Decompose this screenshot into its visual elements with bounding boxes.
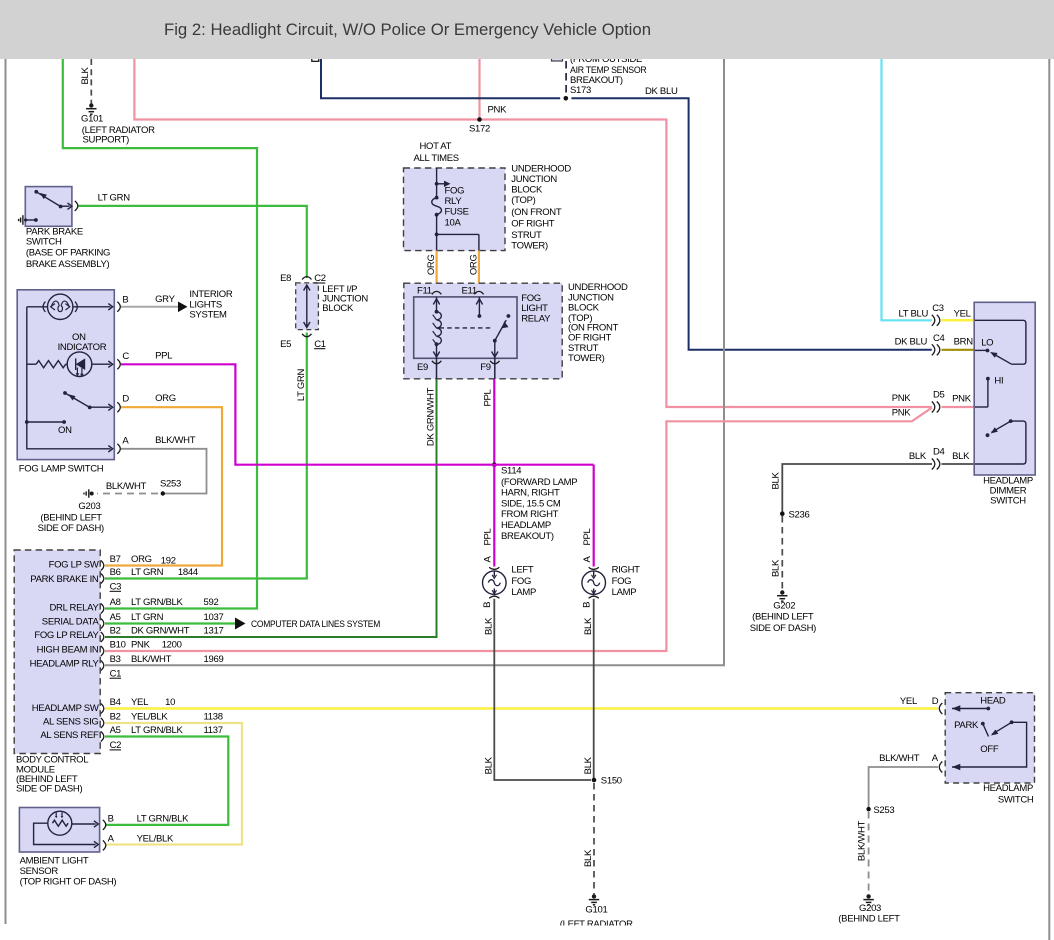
svg-text:B: B bbox=[122, 295, 128, 306]
svg-text:A: A bbox=[482, 556, 493, 563]
svg-text:STRUT: STRUT bbox=[511, 230, 542, 241]
arrow computer data lines system bbox=[235, 618, 246, 630]
svg-text:(BEHIND LEFT: (BEHIND LEFT bbox=[838, 913, 900, 924]
svg-text:10A: 10A bbox=[445, 217, 462, 228]
svg-text:TOWER): TOWER) bbox=[568, 353, 605, 364]
svg-text:RELAY: RELAY bbox=[521, 313, 551, 324]
svg-text:G101: G101 bbox=[81, 113, 103, 124]
svg-text:HEAD: HEAD bbox=[980, 696, 1006, 707]
svg-text:HI: HI bbox=[994, 376, 1003, 387]
svg-text:BLK: BLK bbox=[484, 756, 495, 774]
node S236 bbox=[780, 511, 785, 516]
svg-text:LT GRN: LT GRN bbox=[131, 567, 164, 578]
svg-text:BLK: BLK bbox=[484, 617, 495, 635]
underhood junction block (fog light relay, dashed) bbox=[404, 283, 562, 379]
wire GRY to interior lights system bbox=[121, 306, 179, 308]
svg-text:UNDERHOOD: UNDERHOOD bbox=[511, 164, 571, 175]
wire BLK dashed S236 to ground G202 bbox=[781, 516, 783, 591]
svg-text:SIDE OF DASH): SIDE OF DASH) bbox=[38, 523, 104, 534]
svg-text:A8: A8 bbox=[110, 597, 121, 608]
wire PNK from top border through S172 to dimmer D5 bbox=[134, 59, 931, 407]
svg-text:B: B bbox=[582, 602, 593, 608]
svg-text:OFF: OFF bbox=[980, 744, 999, 755]
svg-text:1844: 1844 bbox=[178, 567, 198, 578]
terminal arcs B C D A bbox=[117, 302, 120, 454]
svg-text:B2: B2 bbox=[110, 711, 121, 722]
svg-text:S172: S172 bbox=[469, 124, 490, 135]
svg-text:LAMP: LAMP bbox=[511, 587, 536, 598]
svg-text:PPL: PPL bbox=[483, 389, 494, 406]
svg-text:LT GRN: LT GRN bbox=[131, 612, 164, 623]
svg-text:SIDE OF DASH): SIDE OF DASH) bbox=[16, 784, 82, 795]
svg-text:592: 592 bbox=[204, 597, 219, 608]
ground G101 bottom bbox=[589, 894, 599, 905]
svg-text:E9: E9 bbox=[417, 362, 428, 373]
fuse FOG RLY FUSE 10A bbox=[432, 168, 479, 251]
svg-text:PPL: PPL bbox=[155, 351, 172, 362]
svg-text:D5: D5 bbox=[933, 390, 945, 401]
wire BLK left fog lamp to S150 bbox=[494, 599, 591, 780]
fog light relay U1 bbox=[414, 297, 517, 358]
svg-text:E11: E11 bbox=[462, 286, 477, 297]
terminal arc park brake bbox=[75, 201, 78, 211]
svg-text:(BEHIND LEFT: (BEHIND LEFT bbox=[40, 513, 102, 524]
svg-text:HEADLAMP RLY: HEADLAMP RLY bbox=[30, 659, 100, 670]
svg-text:SIDE OF DASH): SIDE OF DASH) bbox=[750, 623, 816, 634]
svg-text:BLK/WHT: BLK/WHT bbox=[856, 820, 867, 861]
svg-text:BLK: BLK bbox=[583, 756, 594, 774]
svg-text:SERIAL DATA: SERIAL DATA bbox=[42, 617, 100, 628]
terminal arrows bbox=[108, 304, 112, 310]
svg-text:B10: B10 bbox=[110, 640, 126, 651]
svg-text:1969: 1969 bbox=[204, 654, 224, 665]
ground G203 bottom bbox=[863, 894, 873, 905]
ground G203 (left) bbox=[84, 489, 94, 497]
svg-text:LT GRN/BLK: LT GRN/BLK bbox=[137, 813, 190, 824]
svg-text:(TOP): (TOP) bbox=[511, 195, 535, 206]
svg-text:(BEHIND LEFT: (BEHIND LEFT bbox=[752, 612, 814, 623]
park brake switch bbox=[25, 187, 72, 227]
svg-text:1037: 1037 bbox=[204, 612, 224, 623]
BCM left pin names bbox=[30, 560, 100, 741]
svg-text:SYSTEM: SYSTEM bbox=[189, 309, 227, 320]
ambient light sensor box bbox=[19, 808, 99, 853]
svg-text:BLK: BLK bbox=[952, 451, 970, 462]
svg-text:FOG LP SW: FOG LP SW bbox=[49, 560, 99, 571]
ON indicator resistor + LED bbox=[27, 363, 36, 365]
svg-text:OF RIGHT: OF RIGHT bbox=[511, 218, 554, 229]
svg-text:A5: A5 bbox=[110, 612, 121, 623]
wire LT GRN/BLK BCM A5 AL SENS REF to ambient light sensor B bbox=[105, 737, 228, 825]
svg-text:ORG: ORG bbox=[468, 254, 479, 275]
relay coil and contacts bbox=[433, 297, 511, 358]
svg-text:10: 10 bbox=[165, 697, 175, 708]
ambient sensor terminal arcs bbox=[103, 820, 106, 830]
svg-text:C4: C4 bbox=[933, 333, 945, 344]
ambient light sensor internals bbox=[34, 811, 99, 848]
lower switch + loop bbox=[1009, 419, 1013, 423]
wire LT GRN/BLK from top border to BCM A8 DRL RELAY bbox=[63, 59, 257, 609]
wire BLK dimmer D4 to S236 bbox=[782, 464, 932, 512]
svg-text:AMBIENT LIGHT: AMBIENT LIGHT bbox=[20, 856, 89, 867]
ground G202 bbox=[777, 590, 787, 601]
illumination lamp bbox=[27, 306, 48, 308]
label UNDERHOOD JUNCTION BLOCK (TOP) (ON FRONT OF RIGHT STRUT TOWER) bbox=[511, 164, 571, 252]
headlamp dimmer switch box bbox=[974, 302, 1035, 475]
svg-text:YEL/BLK: YEL/BLK bbox=[137, 833, 174, 844]
wire BLK dashed S150 to ground G101 bbox=[593, 783, 595, 894]
BCM pin arcs bbox=[101, 561, 104, 742]
wire DK BLU from top border through S173 junction to dimmer C4 bbox=[321, 59, 932, 350]
svg-text:B4: B4 bbox=[110, 697, 121, 708]
svg-text:INDICATOR: INDICATOR bbox=[58, 342, 107, 353]
svg-text:BLK: BLK bbox=[909, 451, 927, 462]
wire S173 breakout dashed lead bbox=[565, 61, 567, 95]
svg-text:B7: B7 bbox=[110, 554, 121, 565]
svg-text:SWITCH: SWITCH bbox=[26, 237, 62, 248]
svg-text:BLK: BLK bbox=[583, 849, 594, 867]
svg-text:FOG LAMP SWITCH: FOG LAMP SWITCH bbox=[19, 463, 104, 474]
ground chassis at park brake switch bbox=[19, 215, 23, 225]
svg-text:F11: F11 bbox=[417, 286, 432, 297]
svg-text:GRY: GRY bbox=[155, 294, 175, 305]
svg-text:E5: E5 bbox=[280, 339, 291, 350]
relay terminal arcs bbox=[432, 291, 500, 363]
svg-text:LT GRN: LT GRN bbox=[296, 368, 307, 401]
left page border bbox=[5, 59, 7, 924]
svg-text:B2: B2 bbox=[110, 626, 121, 637]
svg-text:SWITCH: SWITCH bbox=[998, 794, 1034, 805]
svg-text:BLK/WHT: BLK/WHT bbox=[155, 435, 196, 446]
svg-text:LT GRN: LT GRN bbox=[98, 193, 131, 204]
svg-text:FOG LP RELAY: FOG LP RELAY bbox=[34, 630, 99, 641]
svg-text:A: A bbox=[108, 833, 115, 844]
connector fragment at top (outside air temp sensor breakout) bbox=[552, 55, 563, 62]
wire YEL/BLK BCM B2 AL SENS SIG to ambient light sensor A bbox=[105, 723, 242, 845]
wire DK GRN/WHT relay E9 to BCM B2 FOG LP RELAY bbox=[436, 358, 438, 379]
wire LT GRN serial data to computer data lines arrow bbox=[105, 622, 237, 624]
bottom crop mask bbox=[7, 926, 1047, 940]
svg-text:(ON FRONT: (ON FRONT bbox=[511, 207, 562, 218]
svg-text:LT GRN/BLK: LT GRN/BLK bbox=[131, 725, 184, 736]
svg-text:HARN, RIGHT: HARN, RIGHT bbox=[501, 488, 560, 499]
svg-text:B3: B3 bbox=[110, 654, 121, 665]
header band bbox=[0, 0, 1054, 59]
underhood junction block (fuse box, dashed) bbox=[404, 168, 506, 251]
right fog lamp bbox=[582, 571, 606, 595]
svg-text:PNK: PNK bbox=[952, 394, 972, 405]
left fog lamp bbox=[483, 571, 507, 595]
wire BLK/WHT from top border to BCM B3 HEADLAMP RLY bbox=[105, 59, 724, 665]
svg-text:BRN: BRN bbox=[954, 337, 974, 348]
svg-text:DK GRN/WHT: DK GRN/WHT bbox=[426, 387, 437, 446]
switch bbox=[63, 391, 67, 395]
svg-text:E8: E8 bbox=[280, 273, 291, 284]
svg-text:BLK: BLK bbox=[770, 472, 781, 490]
svg-text:FOG: FOG bbox=[445, 185, 465, 196]
svg-text:BLK: BLK bbox=[770, 559, 781, 577]
svg-text:LT BLU: LT BLU bbox=[899, 308, 929, 319]
svg-text:BLK/WHT: BLK/WHT bbox=[106, 481, 147, 492]
svg-text:LT GRN/BLK: LT GRN/BLK bbox=[131, 597, 184, 608]
svg-text:PNK: PNK bbox=[131, 640, 151, 651]
svg-text:PARK: PARK bbox=[954, 720, 979, 731]
svg-text:S253: S253 bbox=[873, 805, 894, 816]
wire PNK BCM B10 HIGH BEAM IN to dimmer D5 bbox=[105, 408, 932, 651]
node S114 bbox=[492, 462, 497, 467]
svg-text:S150: S150 bbox=[601, 776, 622, 787]
node S253 (fog lamp switch ground) bbox=[161, 491, 165, 495]
svg-text:FOG: FOG bbox=[612, 576, 632, 587]
svg-text:FROM RIGHT: FROM RIGHT bbox=[501, 509, 559, 520]
wire LT GRN park brake switch through junction block to BCM B6 PARK BRAKE IN bbox=[78, 206, 307, 278]
body control module box bbox=[14, 550, 100, 754]
arrow to interior lights system bbox=[178, 302, 188, 313]
svg-text:Fig 2: Headlight Circuit, W/O: Fig 2: Headlight Circuit, W/O Police Or … bbox=[164, 20, 651, 39]
label UNDERHOOD JUNCTION BLOCK (TOP) (ON FRONT OF RIGHT STRUT TOWER) bbox=[568, 282, 628, 364]
svg-text:D4: D4 bbox=[933, 446, 945, 457]
svg-text:PNK: PNK bbox=[488, 105, 508, 116]
svg-text:B6: B6 bbox=[110, 567, 121, 578]
svg-text:SIDE, 15.5 CM: SIDE, 15.5 CM bbox=[501, 499, 561, 510]
svg-text:YEL: YEL bbox=[131, 697, 148, 708]
left bus bbox=[27, 307, 111, 449]
wire BLK/WHT dashed to ground G203 bbox=[97, 493, 158, 495]
svg-text:BLOCK: BLOCK bbox=[511, 185, 543, 196]
svg-text:(BASE OF PARKING: (BASE OF PARKING bbox=[26, 248, 110, 259]
svg-text:RIGHT: RIGHT bbox=[612, 564, 641, 575]
svg-text:BLK: BLK bbox=[583, 617, 594, 635]
svg-text:BLK/WHT: BLK/WHT bbox=[131, 654, 172, 665]
fog lamp switch internals bbox=[25, 294, 113, 452]
svg-text:AL SENS REF: AL SENS REF bbox=[40, 730, 99, 741]
node S173 bbox=[560, 97, 571, 100]
ground G101 top bbox=[86, 103, 96, 114]
svg-text:HEADLAMP: HEADLAMP bbox=[983, 783, 1033, 794]
svg-text:D: D bbox=[932, 696, 939, 707]
svg-text:SWITCH: SWITCH bbox=[990, 496, 1026, 507]
svg-text:PPL: PPL bbox=[582, 528, 593, 545]
svg-text:BRAKE ASSEMBLY): BRAKE ASSEMBLY) bbox=[26, 259, 110, 270]
ON stub bbox=[27, 421, 64, 423]
left I/P junction block E8/C2-E5/C1 bbox=[296, 283, 319, 330]
svg-text:HIGH BEAM IN: HIGH BEAM IN bbox=[37, 644, 99, 655]
headlamp switch box bbox=[945, 693, 1034, 783]
svg-text:1137: 1137 bbox=[204, 725, 223, 736]
svg-text:SUPPORT): SUPPORT) bbox=[83, 135, 130, 146]
svg-text:AL SENS SIG: AL SENS SIG bbox=[43, 717, 98, 728]
svg-text:(FORWARD LAMP: (FORWARD LAMP bbox=[501, 477, 577, 488]
svg-text:BLK: BLK bbox=[80, 67, 91, 85]
D terminal arc bbox=[939, 703, 942, 714]
svg-text:B: B bbox=[482, 602, 493, 608]
svg-text:D: D bbox=[122, 394, 129, 405]
svg-text:DK BLU: DK BLU bbox=[645, 86, 678, 97]
wire LT BLU from top border to dimmer C3 bbox=[882, 59, 932, 320]
svg-text:G203: G203 bbox=[78, 501, 100, 512]
svg-text:FUSE: FUSE bbox=[445, 207, 469, 218]
svg-text:S173: S173 bbox=[570, 85, 591, 96]
svg-text:F9: F9 bbox=[480, 362, 491, 373]
svg-text:BLOCK: BLOCK bbox=[322, 303, 354, 314]
svg-text:HOT AT: HOT AT bbox=[420, 141, 452, 152]
node S172 bbox=[477, 117, 482, 122]
svg-text:JUNCTION: JUNCTION bbox=[511, 174, 557, 185]
svg-text:RLY: RLY bbox=[445, 196, 463, 207]
svg-text:B: B bbox=[108, 813, 114, 824]
wire ORG fuse to relay E11 bbox=[478, 251, 480, 292]
wire PPL relay F9 to node S114 bbox=[494, 358, 496, 379]
wire PNK branch from top border to S172 bbox=[478, 59, 480, 120]
svg-text:YEL/BLK: YEL/BLK bbox=[131, 711, 168, 722]
svg-text:DK BLU: DK BLU bbox=[895, 337, 928, 348]
A terminal arc bbox=[939, 762, 942, 773]
svg-text:S236: S236 bbox=[789, 509, 810, 520]
wire ORG fuse to relay F11 bbox=[436, 251, 438, 292]
headlamp switch internals bbox=[952, 705, 1027, 770]
right page border bbox=[1048, 59, 1050, 940]
wire BLK/WHT fog switch A to S253 bbox=[121, 449, 207, 494]
svg-text:PNK: PNK bbox=[892, 393, 912, 404]
label S114 (FORWARD LAMP HARN, RIGHT SIDE, 15.5 CM FROM RIGHT HEADLAMP BREAKOUT) bbox=[501, 466, 577, 542]
svg-text:HEADLAMP SW: HEADLAMP SW bbox=[32, 703, 99, 714]
svg-text:A: A bbox=[122, 436, 129, 447]
svg-text:PARK BRAKE IN: PARK BRAKE IN bbox=[30, 574, 99, 585]
svg-text:1200: 1200 bbox=[162, 640, 182, 651]
svg-text:C: C bbox=[122, 351, 129, 362]
svg-text:PPL: PPL bbox=[483, 528, 494, 545]
wire PPL S114 to left fog lamp bbox=[493, 465, 495, 567]
svg-text:DK GRN/WHT: DK GRN/WHT bbox=[131, 626, 190, 637]
node S150 bbox=[592, 778, 597, 783]
svg-text:PNK: PNK bbox=[892, 408, 912, 419]
svg-text:1138: 1138 bbox=[204, 711, 223, 722]
wire PPL S114 to right fog lamp bbox=[593, 465, 595, 567]
svg-text:TOWER): TOWER) bbox=[511, 240, 548, 251]
svg-text:A5: A5 bbox=[110, 725, 121, 736]
svg-text:BLK/WHT: BLK/WHT bbox=[879, 753, 920, 764]
svg-text:G202: G202 bbox=[773, 601, 795, 612]
svg-text:C3: C3 bbox=[932, 303, 944, 314]
wire ORG fog switch D to BCM B7 FOG LP SW bbox=[105, 407, 222, 565]
svg-text:(TOP RIGHT OF DASH): (TOP RIGHT OF DASH) bbox=[20, 877, 117, 888]
svg-text:192: 192 bbox=[161, 556, 176, 567]
svg-text:A: A bbox=[582, 556, 593, 563]
svg-text:G101: G101 bbox=[585, 904, 607, 915]
svg-text:ORG: ORG bbox=[426, 254, 437, 275]
svg-text:1317: 1317 bbox=[204, 626, 224, 637]
svg-text:YEL: YEL bbox=[900, 696, 917, 707]
svg-text:LEFT: LEFT bbox=[511, 564, 534, 575]
svg-text:ON: ON bbox=[58, 425, 72, 436]
svg-text:ORG: ORG bbox=[155, 393, 176, 404]
connector fragment at top of DK BLU wire bbox=[312, 57, 319, 62]
wire YEL BCM B4 HEADLAMP SW to headlamp switch D bbox=[105, 707, 938, 710]
dimmer internals: LO circuit loop bbox=[975, 320, 1026, 464]
node S253 (right) bbox=[866, 807, 870, 811]
wire BLK right fog lamp to S150 bbox=[593, 599, 595, 778]
HI stub bbox=[987, 379, 989, 407]
svg-text:S253: S253 bbox=[160, 478, 181, 489]
svg-text:ORG: ORG bbox=[131, 554, 152, 565]
svg-text:S114: S114 bbox=[501, 466, 521, 477]
svg-text:LAMP: LAMP bbox=[612, 587, 637, 598]
svg-text:SENSOR: SENSOR bbox=[20, 866, 59, 877]
wire BLK/WHT dashed S253 to ground G203 bbox=[868, 812, 870, 895]
wire BLK/WHT headlamp switch A to S253 bbox=[869, 767, 938, 807]
svg-text:BREAKOUT): BREAKOUT) bbox=[501, 531, 554, 542]
svg-text:LO: LO bbox=[981, 337, 993, 348]
svg-text:A: A bbox=[932, 753, 939, 764]
svg-text:DRL RELAY: DRL RELAY bbox=[49, 602, 99, 613]
svg-text:ALL TIMES: ALL TIMES bbox=[414, 153, 459, 164]
svg-text:HEADLAMP: HEADLAMP bbox=[501, 520, 551, 531]
wire PPL fog switch C to node S114 and fog lamps bbox=[121, 364, 594, 464]
svg-text:FOG: FOG bbox=[511, 576, 531, 587]
fog lamp switch box bbox=[17, 290, 114, 460]
wire BLK dashed to ground G101 (top left) bbox=[90, 59, 92, 104]
svg-text:COMPUTER DATA LINES SYSTEM: COMPUTER DATA LINES SYSTEM bbox=[251, 619, 380, 630]
svg-text:YEL: YEL bbox=[954, 308, 971, 319]
